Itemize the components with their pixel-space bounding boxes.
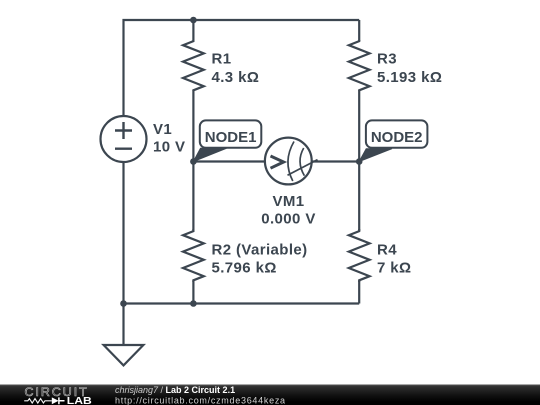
resistor R4 (349, 229, 370, 282)
wire left rail bottom (122, 162, 124, 304)
label R2 value (212, 242, 308, 277)
svg-text:LAB: LAB (67, 396, 92, 405)
wire bottom rail (124, 302, 360, 304)
svg-text:NODE2: NODE2 (371, 129, 423, 146)
junction dot top R1 (190, 17, 197, 24)
junction dot node2 (356, 158, 363, 165)
label R3 value (377, 51, 442, 87)
wire voltmeter row left (193, 160, 264, 162)
svg-text:5.796 kΩ: 5.796 kΩ (212, 260, 277, 277)
junction dot bottom R2 (190, 300, 197, 307)
svg-text:5.193 kΩ: 5.193 kΩ (377, 69, 442, 86)
wire right branch lower (358, 281, 360, 304)
node NODE1 flag (193, 120, 261, 161)
wire top rail (124, 20, 360, 116)
svg-text:10 V: 10 V (153, 139, 185, 156)
label R4 value (377, 242, 411, 277)
svg-text:R3: R3 (377, 51, 397, 68)
junction dot node1 (190, 158, 197, 165)
wire right branch mid (358, 91, 360, 232)
svg-text:R4: R4 (377, 242, 397, 259)
label V1 value (153, 121, 185, 156)
wire voltmeter row right (312, 160, 359, 162)
wire left branch top lead (192, 20, 194, 41)
label VM1 reading (261, 193, 316, 228)
svg-text:R2 (Variable): R2 (Variable) (212, 242, 308, 259)
label R1 value (212, 51, 260, 87)
junction dot bottom left (120, 300, 127, 307)
resistor R1 (183, 40, 204, 91)
svg-text:0.000 V: 0.000 V (261, 211, 316, 228)
node NODE2 flag (359, 120, 427, 161)
svg-text:http://circuitlab.com/czmde364: http://circuitlab.com/czmde3644keza (115, 395, 286, 405)
voltmeter U1 VM1 (265, 138, 318, 185)
svg-text:4.3 kΩ: 4.3 kΩ (212, 69, 260, 86)
wire left branch lower (192, 281, 194, 304)
svg-text:VM1: VM1 (272, 193, 304, 210)
ground (104, 304, 144, 366)
logo CircuitLab (24, 385, 92, 405)
footer bar (0, 385, 540, 405)
wire right branch top lead (358, 20, 360, 41)
svg-text:NODE1: NODE1 (205, 129, 257, 146)
wire left branch mid (192, 91, 194, 232)
svg-text:chrisjiang7 / Lab 2 Circuit 2.: chrisjiang7 / Lab 2 Circuit 2.1 (115, 385, 235, 395)
resistor R3 (349, 40, 370, 91)
voltage source V1 (101, 116, 147, 162)
svg-text:7 kΩ: 7 kΩ (377, 260, 411, 277)
svg-text:R1: R1 (212, 51, 232, 68)
svg-text:V1: V1 (153, 121, 172, 138)
footer text line1 (115, 385, 286, 405)
resistor R2 (183, 229, 204, 282)
